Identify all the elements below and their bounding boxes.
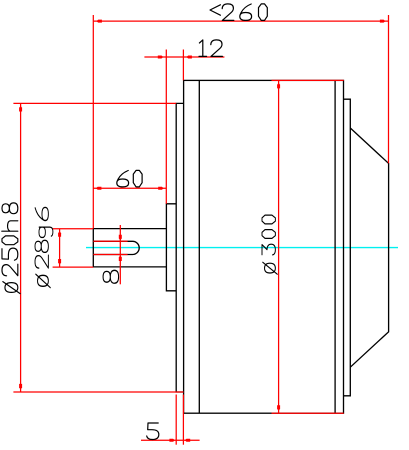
centerline (cyan) [86, 247, 398, 249]
text D250h8 (rotated) [2, 203, 20, 294]
dimension 260 lines [93, 15, 388, 228]
dimension D28g6 lines [53, 229, 94, 267]
main body (D300) [184, 80, 344, 413]
text D28g6 (rotated) [35, 207, 53, 287]
text 12 [199, 40, 222, 57]
hub boss [166, 204, 176, 291]
text 60 [117, 170, 142, 187]
dimension 60 line [93, 187, 166, 189]
dimension D300 lines [272, 80, 344, 413]
dimension 5 arrows [169, 439, 190, 442]
text 8 (rotated) [103, 270, 119, 283]
flange plate (D250) [176, 103, 183, 392]
dimension 60 arrows [96, 187, 164, 190]
dimension 12 lines [144, 50, 224, 204]
dimension 12 arrows [158, 56, 192, 59]
keyway slot [93, 241, 139, 254]
dimension D250h8 arrows [19, 106, 22, 389]
rear ring [344, 99, 351, 396]
text 5 [147, 423, 159, 440]
dimension D300 arrows [277, 83, 280, 411]
dimension 260 arrows [96, 20, 385, 23]
text <260 [210, 4, 267, 21]
dimension D28g6 arrows [58, 231, 61, 264]
dimension 5 lines [141, 395, 200, 445]
cone frustum [350, 128, 388, 367]
shaft outline [93, 229, 166, 267]
dimension 8 keyway lines [93, 225, 127, 284]
text D300 (rotated) [262, 215, 277, 274]
dimension D250h8 lines [13, 103, 183, 392]
dimension 8 arrows [119, 235, 122, 261]
